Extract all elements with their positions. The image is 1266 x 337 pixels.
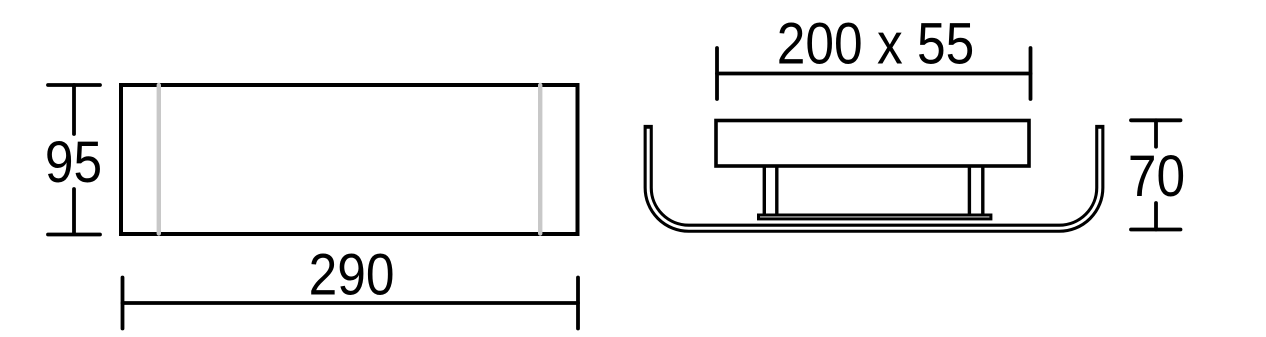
svg-text:95: 95 [45, 129, 102, 195]
dimension 200 x 55: label [777, 10, 974, 76]
dimension 95: bottom tick [48, 233, 100, 237]
svg-text:200 x 55: 200 x 55 [777, 10, 974, 76]
right support post [969, 167, 982, 214]
svg-text:290: 290 [309, 241, 395, 307]
dimension 200 x 55: left end tick [715, 48, 719, 99]
dimension 70: lower extension line [1154, 203, 1158, 230]
curved support rail (inner white core) [648, 129, 1100, 228]
dimension 290: right end tick [576, 278, 580, 329]
dimension 70: top tick [1131, 118, 1181, 122]
curved support rail (side profile, outer stroke) [648, 125, 1100, 228]
left support post [764, 167, 777, 214]
svg-text:70: 70 [1128, 143, 1185, 209]
dimension 70: upper extension line [1154, 120, 1158, 146]
dimension 70: label [1128, 143, 1185, 209]
left mounting seam (gray line) [157, 85, 161, 234]
dimension 95: lower extension line [72, 189, 76, 234]
dimension 95: top tick [48, 83, 100, 87]
dimension 290: label [309, 241, 395, 307]
right mounting seam (gray line) [538, 85, 542, 234]
shelf body (side profile) [716, 121, 1029, 167]
base plate [759, 215, 991, 219]
front view panel outline [121, 85, 578, 234]
dimension 70: bottom tick [1131, 228, 1181, 232]
dimension 200 x 55: dimension line [717, 72, 1031, 76]
dimension 290: left end tick [121, 278, 125, 329]
dimension 200 x 55: right end tick [1029, 48, 1033, 99]
dimension 290: dimension line [123, 301, 579, 305]
dimension 95: label [45, 129, 102, 195]
dimension 95: upper extension line [72, 85, 76, 134]
